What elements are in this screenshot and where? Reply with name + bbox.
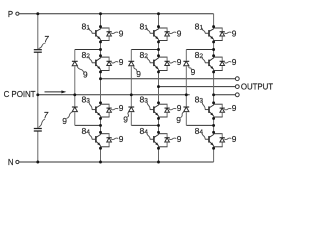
svg-text:9: 9 xyxy=(232,103,237,113)
svg-text:7: 7 xyxy=(44,34,49,44)
svg-text:9: 9 xyxy=(177,28,182,38)
svg-text:9: 9 xyxy=(119,57,124,67)
svg-text:P: P xyxy=(8,10,13,19)
svg-text:9: 9 xyxy=(232,28,237,38)
svg-text:9: 9 xyxy=(232,57,237,67)
svg-text:9: 9 xyxy=(177,103,182,113)
svg-text:9: 9 xyxy=(176,115,181,125)
svg-text:9: 9 xyxy=(83,70,88,80)
svg-text:9: 9 xyxy=(177,134,182,144)
svg-text:C POINT: C POINT xyxy=(4,90,36,99)
svg-text:9: 9 xyxy=(119,28,124,38)
svg-text:OUTPUT: OUTPUT xyxy=(241,83,273,92)
svg-text:9: 9 xyxy=(123,114,128,124)
svg-text:7: 7 xyxy=(44,110,49,120)
svg-text:9: 9 xyxy=(119,103,124,113)
svg-text:N: N xyxy=(8,158,14,167)
svg-text:9: 9 xyxy=(232,134,237,144)
svg-text:9: 9 xyxy=(177,57,182,67)
svg-text:9: 9 xyxy=(119,134,124,144)
svg-text:9: 9 xyxy=(62,116,67,126)
